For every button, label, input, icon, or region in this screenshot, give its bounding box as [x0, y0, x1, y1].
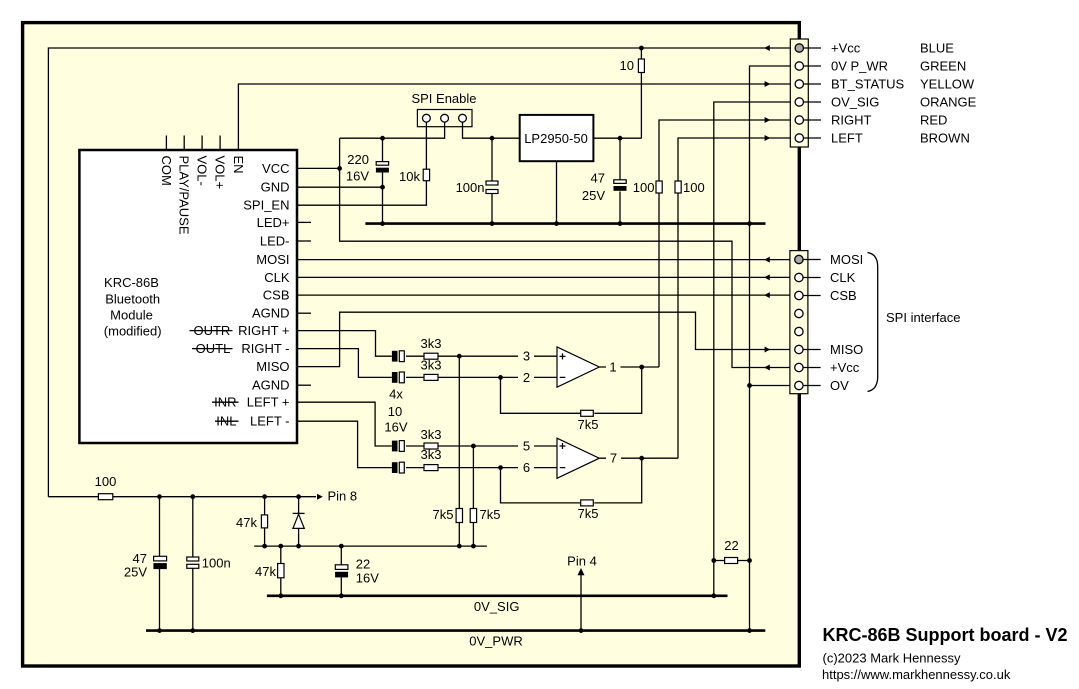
node pin8 47k	[262, 494, 267, 499]
wire EN to BT_STATUS	[238, 84, 794, 150]
connector J2 labels	[831, 41, 905, 146]
strikethrough lines OUTR OUTL INR INL	[190, 331, 239, 422]
svg-text:25V: 25V	[582, 188, 605, 203]
wire LED+ stub	[297, 221, 311, 223]
node 22R left	[711, 558, 716, 563]
svg-text:100n: 100n	[202, 555, 231, 570]
node rail 0V PWR	[747, 221, 752, 226]
node 0V_SIG 47k	[278, 593, 283, 598]
arrow CSB left	[764, 292, 770, 298]
node pin8 47u	[157, 494, 162, 499]
wire U2 feedback loop	[501, 458, 642, 503]
wire 7k5 column 2	[472, 446, 474, 546]
wire 0V top rail	[365, 222, 765, 225]
wire 10R column from +Vcc	[640, 48, 642, 138]
svg-text:100: 100	[633, 180, 655, 195]
svg-text:AGND: AGND	[252, 378, 290, 393]
wire OV row	[750, 385, 795, 387]
capacitor C 10u right-	[392, 372, 404, 383]
wire 100n column bottom	[192, 497, 194, 631]
svg-text:EN: EN	[231, 156, 246, 174]
svg-text:VOL+: VOL+	[213, 156, 228, 190]
svg-text:47k: 47k	[255, 564, 276, 579]
svg-text:3k3: 3k3	[421, 358, 442, 373]
svg-text:MISO: MISO	[256, 359, 289, 374]
wire OV_SIG column	[714, 102, 795, 596]
arrow LEFT right	[765, 135, 771, 141]
arrow RIGHT right	[765, 117, 771, 123]
svg-text:RIGHT -: RIGHT -	[241, 341, 289, 356]
node 0V_PWR pin4	[579, 628, 584, 633]
connector J3 labels	[830, 252, 863, 393]
wire RIGHT to 100R	[659, 120, 795, 181]
svg-text:ORANGE: ORANGE	[920, 95, 977, 110]
svg-text:BROWN: BROWN	[920, 131, 970, 146]
svg-text:RED: RED	[920, 113, 947, 128]
wire 100R to op-amp U2 output	[677, 193, 679, 458]
svg-text:COM: COM	[159, 156, 174, 186]
arrow BT_STATUS right	[765, 81, 771, 87]
capacitor C 10u right+	[392, 351, 404, 362]
svg-text:220: 220	[347, 152, 369, 167]
wire regulator output right segment	[463, 122, 520, 138]
svg-text:LED-: LED-	[260, 234, 290, 249]
svg-text:MISO: MISO	[830, 342, 863, 357]
capacitor 22u/16V	[335, 565, 348, 578]
wire diode column	[298, 497, 300, 546]
wire 47u column bottom	[159, 497, 161, 631]
op-amp U2	[557, 438, 599, 478]
wire LED- stub	[297, 240, 311, 242]
wire LEFT to 100R	[678, 138, 795, 181]
node rail LP2950 gnd	[554, 221, 559, 226]
wire RIGHT+ to C and R to U1 pin3	[297, 331, 557, 357]
svg-text:22: 22	[724, 538, 738, 553]
node midrail 47k2	[278, 544, 283, 549]
svg-text:47: 47	[591, 171, 605, 186]
svg-text:5: 5	[523, 439, 530, 454]
connector J2 six pin strip	[790, 39, 821, 147]
svg-text:SPI_EN: SPI_EN	[243, 198, 289, 213]
module top pin names vertical	[159, 156, 246, 235]
svg-text:https://www.markhennessy.co.uk: https://www.markhennessy.co.uk	[822, 667, 1011, 682]
svg-text:CSB: CSB	[830, 288, 857, 303]
wire U1 output	[599, 366, 659, 368]
svg-text:LED+: LED+	[257, 215, 290, 230]
wire LEFT- to C and R to U2 pin6	[297, 421, 557, 467]
resistor 100 pin8	[98, 494, 112, 500]
svg-text:LEFT: LEFT	[831, 131, 863, 146]
node midrail diode	[296, 544, 301, 549]
wire mid ground rail	[254, 545, 487, 547]
svg-text:3k3: 3k3	[421, 336, 442, 351]
svg-text:KRC-86B Support board - V2: KRC-86B Support board - V2	[823, 625, 1068, 645]
svg-text:VCC: VCC	[262, 161, 289, 176]
wire 47k column 1	[264, 497, 266, 546]
SPI interface bracket	[868, 253, 878, 392]
diode D1	[293, 513, 305, 528]
svg-text:0V_SIG: 0V_SIG	[474, 599, 520, 614]
node midrail 7k5-1	[457, 544, 462, 549]
svg-text:RIGHT +: RIGHT +	[238, 323, 289, 338]
resistor 100 right channel	[656, 181, 662, 193]
svg-text:GND: GND	[261, 180, 290, 195]
resistor 7k5 feedback U2	[581, 500, 594, 506]
resistor 3k3 row3	[424, 443, 438, 449]
wire VCC net module to SPI +Vcc	[297, 138, 795, 367]
module pin names	[238, 161, 290, 429]
wire regulator output left segment	[340, 122, 445, 138]
svg-text:LP2950-50: LP2950-50	[524, 131, 588, 146]
svg-text:3: 3	[523, 349, 530, 364]
wire LEFT+ to C and R to U2 pin5	[297, 402, 557, 446]
svg-text:AGND: AGND	[252, 306, 290, 321]
arrow CLK left	[764, 274, 770, 280]
resistor 22	[725, 558, 738, 564]
svg-text:Pin 8: Pin 8	[328, 489, 358, 504]
node U1 pin2 feedback	[498, 375, 503, 380]
node midrail 47k1	[262, 544, 267, 549]
node U2 pin5 7k5	[471, 444, 476, 449]
svg-text:SPI interface: SPI interface	[886, 310, 960, 325]
regulator LP2950-50 box	[520, 115, 594, 161]
capacitor 47u/25V bottom	[153, 556, 166, 569]
node 0V_SIG OV column	[711, 593, 716, 598]
svg-text:RIGHT: RIGHT	[831, 113, 872, 128]
svg-text:Bluetooth: Bluetooth	[105, 291, 160, 306]
node 100n top	[490, 136, 495, 141]
svg-text:3k3: 3k3	[421, 447, 442, 462]
wire 47u/25V column	[619, 138, 621, 223]
svg-text:(c)2023 Mark Hennessy: (c)2023 Mark Hennessy	[823, 651, 961, 666]
wire CSB row	[297, 294, 795, 296]
svg-text:7k5: 7k5	[433, 507, 454, 522]
arrow +Vcc left	[764, 45, 770, 51]
node 0V_PWR column	[747, 628, 752, 633]
wire 0V_PWR rail	[146, 629, 765, 632]
node 0V_SIG 22u	[339, 593, 344, 598]
svg-text:100n: 100n	[456, 180, 485, 195]
svg-text:Pin 4: Pin 4	[567, 554, 597, 569]
arrow Pin 4	[578, 568, 585, 575]
resistor 3k3 row1	[424, 353, 438, 359]
svg-text:0V P_WR: 0V P_WR	[831, 59, 888, 74]
svg-text:+Vcc: +Vcc	[831, 41, 861, 56]
node 220u top	[380, 136, 385, 141]
capacitor 47u/25V	[614, 180, 627, 191]
svg-text:OV_SIG: OV_SIG	[831, 95, 879, 110]
svg-text:BT_STATUS: BT_STATUS	[831, 77, 905, 92]
svg-text:KRC-86B: KRC-86B	[104, 275, 159, 290]
svg-text:10k: 10k	[399, 169, 420, 184]
wire 220u column	[382, 138, 384, 223]
svg-text:CLK: CLK	[264, 270, 290, 285]
wire AGND stub	[297, 312, 311, 314]
node U1 pin3 7k5	[457, 354, 462, 359]
arrow MOSI left	[764, 257, 770, 263]
svg-text:YELLOW: YELLOW	[920, 77, 975, 92]
svg-text:2: 2	[523, 370, 530, 385]
svg-text:10: 10	[620, 58, 634, 73]
capacitor 220u/16V	[376, 162, 389, 173]
capacitor 100n	[486, 181, 498, 194]
capacitor C 10u left+	[392, 441, 404, 452]
arrow SPI +Vcc left	[764, 365, 770, 371]
svg-text:SPI Enable: SPI Enable	[411, 91, 476, 106]
resistor 7k5 vertical 1	[456, 509, 462, 523]
node OV row	[747, 383, 752, 388]
node rail 220u	[380, 221, 385, 226]
svg-text:GREEN: GREEN	[920, 59, 966, 74]
node midrail 22u	[339, 544, 344, 549]
resistor 3k3 row4	[424, 465, 438, 471]
resistor 7k5 feedback U1	[581, 410, 594, 416]
svg-text:16V: 16V	[384, 420, 407, 435]
wire CLK row	[297, 276, 795, 278]
svg-text:+Vcc: +Vcc	[830, 360, 860, 375]
svg-text:BLUE: BLUE	[920, 41, 954, 56]
wire GND row	[297, 186, 383, 188]
svg-text:7k5: 7k5	[480, 507, 501, 522]
svg-text:7: 7	[610, 451, 617, 466]
wire 100n column	[491, 138, 493, 223]
svg-text:1: 1	[609, 360, 616, 375]
svg-text:Module: Module	[110, 308, 153, 323]
svg-text:LEFT -: LEFT -	[250, 414, 290, 429]
node pin8 100n	[190, 494, 195, 499]
svg-text:16V: 16V	[356, 570, 379, 585]
wire 22R row	[714, 560, 750, 562]
svg-text:CSB: CSB	[263, 288, 290, 303]
capacitor 100n bottom	[187, 557, 199, 568]
svg-text:PLAY/PAUSE: PLAY/PAUSE	[177, 156, 192, 235]
svg-text:0V_PWR: 0V_PWR	[469, 633, 522, 648]
wire MISO route	[297, 312, 795, 366]
svg-text:100: 100	[95, 474, 117, 489]
wire RIGHT- to C and R to U1 pin2	[297, 349, 557, 378]
board frame	[23, 23, 800, 666]
wire LP2950 ground pin	[556, 161, 558, 223]
svg-text:47k: 47k	[236, 515, 257, 530]
wire U2 output	[599, 457, 678, 459]
arrow MISO right	[765, 347, 771, 353]
node +Vcc 10R	[639, 46, 644, 51]
svg-text:LEFT +: LEFT +	[247, 395, 290, 410]
op-amp U1	[557, 347, 599, 387]
node U1 output feedback	[639, 365, 644, 370]
wire Pin 8 row	[48, 496, 316, 498]
svg-text:3k3: 3k3	[421, 427, 442, 442]
SPI Enable header J1	[417, 110, 472, 127]
node rail 100n	[490, 221, 495, 226]
svg-text:MOSI: MOSI	[830, 252, 863, 267]
node GND 220u	[380, 185, 385, 190]
wire Pin 4	[580, 572, 582, 631]
wire LP2950 output right	[593, 137, 641, 139]
wire SPI Enable pin1 to 10k to SPI_EN	[297, 122, 426, 205]
wire U1 feedback loop	[501, 367, 642, 413]
wire +Vcc top loop	[48, 48, 794, 497]
wire AGND stub 2	[297, 384, 311, 386]
connector J3 SPI strip	[790, 251, 821, 394]
resistor 10k	[423, 169, 429, 181]
svg-text:4x: 4x	[389, 387, 403, 402]
node 0V_PWR 47u	[157, 628, 162, 633]
svg-text:16V: 16V	[346, 169, 369, 184]
node midrail 7k5-2	[471, 544, 476, 549]
node rail 47u	[618, 221, 623, 226]
resistor 100 left channel	[675, 181, 681, 193]
resistor 10	[638, 59, 644, 73]
svg-text:OV: OV	[830, 378, 849, 393]
wire MOSI row	[297, 259, 795, 261]
node 47u top	[618, 136, 623, 141]
wire 100R to op-amp U1 output	[658, 193, 660, 367]
svg-text:MOSI: MOSI	[256, 252, 289, 267]
wire 0V_SIG rail	[267, 594, 728, 597]
svg-text:25V: 25V	[124, 564, 147, 579]
node 22R right	[747, 558, 752, 563]
node U2 pin6 feedback	[498, 465, 503, 470]
svg-text:22: 22	[356, 556, 370, 571]
svg-text:6: 6	[523, 460, 530, 475]
svg-text:10: 10	[388, 404, 402, 419]
node 0V_PWR 100n	[190, 628, 195, 633]
wire 47k column 2	[280, 546, 282, 596]
node U2 output feedback	[639, 456, 644, 461]
svg-text:7k5: 7k5	[578, 506, 599, 521]
connector J2 wire colours	[920, 41, 977, 146]
wire 0V PWR column	[750, 66, 795, 631]
capacitor C 10u left-	[392, 462, 404, 473]
svg-text:CLK: CLK	[830, 270, 856, 285]
svg-text:7k5: 7k5	[578, 417, 599, 432]
svg-text:(modified): (modified)	[104, 324, 162, 339]
svg-text:100: 100	[683, 180, 705, 195]
node pin8 diode	[296, 494, 301, 499]
node VCC junction	[337, 166, 342, 171]
svg-text:VOL-: VOL-	[195, 156, 210, 186]
resistor 47k lower	[278, 564, 284, 578]
module old pin names struck	[193, 323, 236, 429]
module top pin stubs	[166, 136, 220, 151]
resistor 3k3 row2	[424, 374, 438, 380]
arrow Pin 8	[317, 494, 323, 500]
resistor 7k5 vertical 2	[470, 509, 476, 523]
wire 7k5 column 1	[458, 356, 460, 546]
wire 22u column	[340, 546, 342, 596]
module U1 KRC-86B box	[79, 150, 297, 443]
resistor 47k upper	[261, 515, 267, 528]
